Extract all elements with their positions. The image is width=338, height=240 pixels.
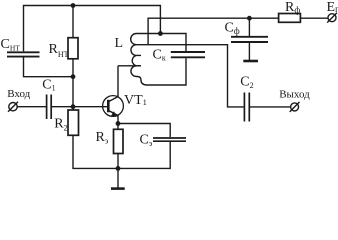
wire Cэ bottom to rail <box>118 142 170 169</box>
emitter arrow <box>111 111 118 116</box>
wire Rф to Еп terminal <box>300 17 328 19</box>
ground under Cф <box>248 43 250 60</box>
wire node to base node <box>72 77 74 107</box>
wire Rнт top <box>72 6 74 38</box>
emitter node wire to Cэ <box>118 124 170 138</box>
junction emitter node <box>116 121 121 126</box>
terminal Выход <box>291 103 299 111</box>
capacitor Cф <box>231 37 268 42</box>
wire top rail from C_nt top to tank top <box>24 6 161 52</box>
wire tank top <box>141 34 186 52</box>
wire base node to R2 <box>72 107 74 110</box>
input terminal Вход <box>9 103 17 111</box>
junction top rail / Rнт <box>71 3 76 8</box>
wire R2 bottom to rail <box>73 135 118 168</box>
svg-text:L: L <box>115 36 124 51</box>
capacitor Cнт <box>7 52 40 56</box>
junction tank top node <box>158 31 163 36</box>
wire collector up to tap <box>117 66 119 97</box>
wire feed node to Rф <box>249 17 278 19</box>
capacitor C1 <box>47 95 52 120</box>
wire input to C1 <box>17 106 46 108</box>
wire Rэ bottom to rail <box>117 154 119 169</box>
svg-text:Выход: Выход <box>279 89 310 101</box>
junction bottom rail / ground <box>116 166 121 171</box>
capacitor Cк <box>171 52 205 57</box>
wire L bottom to Ck bottom <box>138 58 187 85</box>
terminal Еп <box>328 14 336 22</box>
wire collector tap <box>118 65 141 67</box>
ground main <box>117 168 119 187</box>
resistor Rэ <box>114 129 124 153</box>
inductor L <box>131 34 141 77</box>
wire C_nt bottom to node <box>24 58 74 77</box>
capacitor Cэ <box>153 138 186 141</box>
resistor Rф <box>279 14 301 23</box>
wire tap1 to output branch <box>141 45 244 107</box>
wire C1 to base <box>52 106 108 108</box>
transistor VT1 <box>103 96 124 117</box>
wire feed line <box>148 18 249 45</box>
junction base node <box>71 104 76 109</box>
wire feed node down to Cф <box>248 18 250 36</box>
svg-text:Вход: Вход <box>7 88 30 100</box>
wire Rнт bottom to node <box>72 59 74 77</box>
wire emitter node to Rэ <box>117 124 119 130</box>
wire C2 to output terminal <box>250 106 291 108</box>
junction feed node Cф/Rф <box>247 16 252 21</box>
resistor R2 <box>68 110 79 135</box>
wire emitter down <box>117 116 119 124</box>
resistor Rнт <box>68 38 78 59</box>
junction Cнт/Rнт bottom node <box>71 74 76 79</box>
capacitor C2 <box>244 93 249 122</box>
